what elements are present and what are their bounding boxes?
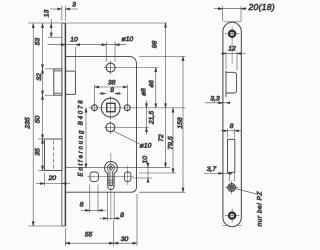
- svg-text:3: 3: [72, 2, 76, 9]
- extension line case top to 158 dim: [139, 55, 186, 57]
- leader for d10 label: [113, 131, 140, 144]
- faceplate front outline: [223, 22, 241, 226]
- leader nur bei PZ: [236, 189, 256, 194]
- svg-text:8: 8: [230, 123, 234, 130]
- svg-text:ø10: ø10: [140, 143, 152, 150]
- deadbolt (protruding): [45, 139, 62, 171]
- svg-text:21,5: 21,5: [148, 111, 155, 125]
- svg-text:20(18): 20(18): [247, 2, 275, 12]
- dim 72: [164, 108, 166, 167]
- svg-text:Entfernung B4078: Entfernung B4078: [78, 99, 84, 177]
- Entfernung vertical dim line: [85, 108, 87, 168]
- bottom corner ticks: [222, 225, 226, 227]
- left dimension chain 53/32/50/35: [38, 23, 54, 170]
- dim 13: [48, 19, 62, 37]
- svg-text:nur bei PZ: nur bei PZ: [256, 191, 263, 227]
- extension line from plate top to right dims: [28, 22, 167, 24]
- extension line hole below follower: [117, 126, 149, 128]
- dim 21,5: [145, 101, 147, 135]
- dim 79,5: [172, 108, 174, 173]
- svg-text:ø8: ø8: [141, 88, 148, 96]
- svg-text:10: 10: [142, 156, 149, 164]
- svg-text:72: 72: [158, 134, 165, 142]
- svg-text:8: 8: [120, 212, 124, 219]
- PZ profile cylinder hole: [105, 153, 118, 220]
- svg-text:10: 10: [70, 37, 78, 44]
- faceplate side view (Stulp): [62, 23, 66, 226]
- horizontal centerline through follower and d8 holes: [89, 107, 134, 109]
- svg-text:235: 235: [24, 117, 31, 130]
- plate centerline segment: [231, 42, 233, 65]
- side slot left: [90, 172, 98, 181]
- dim d10 (top hole): [102, 42, 119, 63]
- svg-text:50: 50: [35, 116, 42, 124]
- svg-text:13: 13: [43, 10, 50, 18]
- extension line follower axis to right: [134, 107, 186, 109]
- top screw hole: [225, 27, 239, 41]
- svg-text:38: 38: [108, 80, 116, 87]
- svg-text:20: 20: [48, 175, 57, 182]
- side slot right: [124, 172, 130, 181]
- svg-text:32: 32: [36, 73, 43, 81]
- horizontal line across case at cylinder level: [66, 166, 170, 168]
- svg-text:35: 35: [34, 148, 41, 156]
- follower (square nut hole): [101, 96, 120, 120]
- top tangent tick: [223, 21, 241, 23]
- svg-text:53: 53: [35, 38, 42, 46]
- hole below follower d10: [104, 121, 116, 134]
- lock case outline: [66, 56, 137, 192]
- dim 3,3: [205, 102, 230, 104]
- dim 98: [164, 23, 166, 108]
- dim 8 (deadbolt cutout width): [221, 129, 242, 138]
- svg-text:12: 12: [228, 46, 236, 53]
- bottom screw hole: [225, 208, 239, 222]
- center marks below deadbolt cutout: [228, 172, 230, 181]
- d8 screw hole right: [124, 105, 130, 111]
- svg-text:98: 98: [151, 41, 158, 49]
- svg-text:55: 55: [85, 232, 93, 239]
- deadbolt cutout: [228, 139, 235, 172]
- dim 8 (left slot width): [81, 185, 106, 213]
- svg-text:30: 30: [121, 236, 129, 243]
- svg-text:8: 8: [80, 202, 84, 209]
- short ext lines near cylinder right: [139, 172, 177, 174]
- top hole d10: [104, 61, 117, 75]
- latch cutout: [226, 71, 237, 98]
- dim 10 (latch tail depth): [48, 44, 127, 70]
- svg-text:8: 8: [110, 87, 114, 94]
- dim 235: [28, 23, 62, 226]
- latch bolt (protruding): [54, 69, 62, 95]
- svg-text:3,3: 3,3: [210, 96, 220, 103]
- svg-text:158: 158: [177, 117, 184, 129]
- dim 20(18) top: [214, 6, 247, 21]
- dim 12 (latch cutout width): [221, 52, 246, 71]
- extension case bottom: [139, 191, 186, 193]
- d8 screw hole left: [92, 105, 98, 111]
- PZ fixing hole: [225, 181, 238, 194]
- dim 46: [155, 67, 157, 108]
- slot horizontal centerline: [88, 175, 134, 177]
- dim 38 (d8 holes spacing): [95, 85, 128, 105]
- extension line top hole center: [118, 66, 159, 68]
- right slot vertical centerline: [127, 166, 129, 186]
- dim 10 (cylinder area right): [147, 163, 149, 182]
- dim 3,7: [204, 172, 231, 174]
- svg-text:ø10: ø10: [121, 36, 133, 43]
- dim 158: [182, 56, 184, 192]
- dim 8 (cylinder slot width): [100, 192, 121, 221]
- svg-text:46: 46: [148, 80, 155, 88]
- svg-text:79,5: 79,5: [167, 136, 174, 149]
- latch tail inside case: [66, 71, 76, 94]
- dim 8 (follower square): [99, 92, 122, 94]
- svg-text:3,7: 3,7: [207, 166, 217, 173]
- bottom chain 55 / 30: [65, 194, 137, 246]
- dim 3 (faceplate thickness): [50, 6, 78, 22]
- dim 20 (deadbolt width): [36, 173, 70, 187]
